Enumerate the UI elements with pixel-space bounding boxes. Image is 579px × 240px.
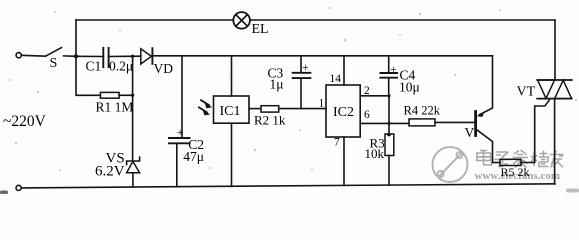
label VD — [154, 61, 174, 76]
resistor R3 — [385, 133, 394, 185]
lamp EL — [233, 12, 250, 29]
label 1u — [270, 76, 284, 91]
svg-text:10μ: 10μ — [399, 80, 420, 95]
svg-text:VT: VT — [517, 84, 536, 99]
transistor V base bar — [474, 112, 477, 136]
node D junction dot — [387, 94, 390, 97]
terminal top-left — [16, 53, 21, 58]
wire R1 to node B vertical — [119, 94, 133, 96]
label 0.2u — [109, 59, 133, 74]
svg-text:C1: C1 — [86, 58, 102, 73]
label R5 2k — [501, 165, 530, 179]
label ~220V — [3, 113, 47, 130]
wire bus down to IC1 — [231, 56, 233, 96]
label EL — [252, 22, 269, 37]
svg-text:R2 1k: R2 1k — [254, 113, 286, 128]
IC IC2 — [326, 85, 360, 137]
scan speckles — [9, 7, 577, 171]
label 10k — [365, 146, 385, 161]
capacitor C4 — [380, 73, 397, 96]
node C junction dot at R1 right — [131, 94, 134, 97]
svg-text:6.2V: 6.2V — [95, 164, 125, 180]
svg-text:~220V: ~220V — [3, 113, 47, 130]
label VT — [517, 84, 536, 99]
photo IC IC1 — [214, 96, 250, 123]
wire IC2 pin 2 to node D — [360, 95, 389, 97]
scan smudge bottom-right — [566, 189, 579, 193]
transistor V collector — [477, 130, 493, 163]
resistor R5 — [500, 159, 521, 165]
capacitor C1 — [103, 48, 108, 67]
label plus C3 — [302, 60, 309, 74]
label C1 — [86, 58, 102, 73]
wire IC2 pin 6 to resistor R4 — [360, 122, 409, 124]
svg-text:R5 2k: R5 2k — [501, 165, 530, 179]
label R2 1k — [254, 113, 286, 128]
wire bus down to IC2 pin 14 — [343, 56, 345, 85]
label pin 14 — [330, 73, 342, 85]
svg-text:1: 1 — [319, 97, 325, 109]
svg-text:IC2: IC2 — [333, 105, 354, 120]
wire IC1 output to resistor R2 — [249, 108, 261, 110]
label plus C4 — [390, 62, 397, 76]
label pin 7 — [334, 136, 340, 148]
svg-text:10k: 10k — [365, 146, 385, 161]
svg-text:IC1: IC1 — [220, 104, 241, 119]
transistor V emitter with arrow — [477, 56, 493, 117]
label C3 — [268, 66, 284, 81]
wire R5 to triac gate — [521, 100, 549, 162]
label IC1 — [220, 104, 241, 119]
watermark url text — [475, 170, 561, 182]
svg-text:0.2μ: 0.2μ — [109, 59, 133, 74]
wire top rail left of lamp EL — [76, 19, 233, 21]
watermark logo circle — [433, 147, 468, 182]
wire R2 to IC2 pin 1 — [279, 108, 326, 110]
watermark glyph 4 — [531, 151, 549, 167]
diode VD — [141, 48, 153, 64]
label pin 1 — [319, 97, 325, 109]
wire node B down to zener VS — [132, 56, 134, 161]
bottom rail wire — [21, 184, 555, 188]
wire bus down to capacitor C2 — [181, 56, 183, 138]
svg-text:+: + — [177, 125, 184, 139]
svg-text:2: 2 — [364, 85, 370, 97]
terminal bottom-left — [16, 185, 21, 190]
wire bus down to capacitor C3 — [300, 56, 302, 72]
wire switch to node A — [64, 55, 77, 57]
wire node A down to resistor R1 — [76, 56, 100, 95]
wire R4 to transistor base — [435, 121, 475, 123]
resistor R4 — [409, 119, 435, 126]
svg-text:R1 1M: R1 1M — [96, 100, 134, 115]
label 10u — [399, 80, 420, 95]
label pin 6 — [364, 109, 370, 121]
label pin 2 — [364, 85, 370, 97]
label C4 — [400, 67, 416, 82]
watermark glyph 3 — [513, 150, 529, 168]
label S — [50, 56, 58, 71]
label R3 — [370, 136, 385, 151]
watermark glyph 5 — [550, 151, 564, 168]
wire terminal to switch — [21, 54, 45, 57]
wire DC bus from VD to transistor emitter corner — [152, 55, 492, 57]
label R4 22k — [404, 104, 441, 118]
svg-text:+: + — [390, 62, 397, 76]
wire node D down through pin6 node to resistor R3 — [388, 96, 390, 134]
label R1 1M — [96, 100, 134, 115]
label 47u — [183, 149, 204, 164]
switch S blade — [46, 48, 62, 57]
svg-text:V: V — [465, 125, 475, 140]
triac VT — [537, 80, 572, 99]
label C2 — [188, 137, 204, 152]
svg-text:EL: EL — [252, 22, 269, 37]
scan smudge bottom-left — [0, 191, 8, 195]
svg-text:S: S — [50, 56, 58, 71]
resistor R2 — [261, 106, 279, 112]
svg-text:6: 6 — [364, 109, 370, 121]
capacitor C3 — [293, 73, 311, 109]
label V — [465, 125, 475, 140]
wire node A up to top rail — [75, 20, 77, 56]
node E junction dot pin6 — [387, 122, 390, 125]
svg-text:1μ: 1μ — [270, 76, 284, 91]
wire triac down to bottom rail — [554, 99, 556, 184]
watermark glyph 1 — [477, 151, 492, 166]
capacitor C2 — [169, 138, 190, 187]
svg-text:7: 7 — [334, 136, 340, 148]
wire IC1 down to bottom rail — [231, 123, 233, 186]
svg-text:14: 14 — [330, 73, 342, 85]
label 6.2V — [95, 164, 125, 180]
wire collector to resistor R5 — [493, 162, 501, 164]
wire top rail right of lamp to top-right corner — [250, 19, 555, 21]
wire bus down to capacitor C4 — [388, 56, 390, 73]
resistor R1 — [100, 92, 119, 98]
node B junction dot — [131, 55, 134, 58]
wire top-right corner down to triac VT — [554, 20, 556, 80]
watermark glyph 2 — [494, 152, 510, 167]
label IC2 — [333, 105, 354, 120]
wire IC2 pin 7 down to bottom rail — [343, 137, 345, 185]
label VS — [106, 151, 125, 167]
svg-text:R4 22k: R4 22k — [404, 104, 441, 118]
node A junction dot — [74, 54, 78, 58]
svg-text:+: + — [302, 60, 309, 74]
light arrows into IC1 — [199, 100, 212, 115]
svg-text:VD: VD — [154, 61, 174, 76]
wire C1 to node B — [109, 55, 141, 57]
wire node A to capacitor C1 — [76, 55, 103, 57]
label plus C2 — [177, 125, 184, 139]
zener diode VS — [127, 157, 140, 187]
svg-text:47μ: 47μ — [183, 149, 204, 164]
